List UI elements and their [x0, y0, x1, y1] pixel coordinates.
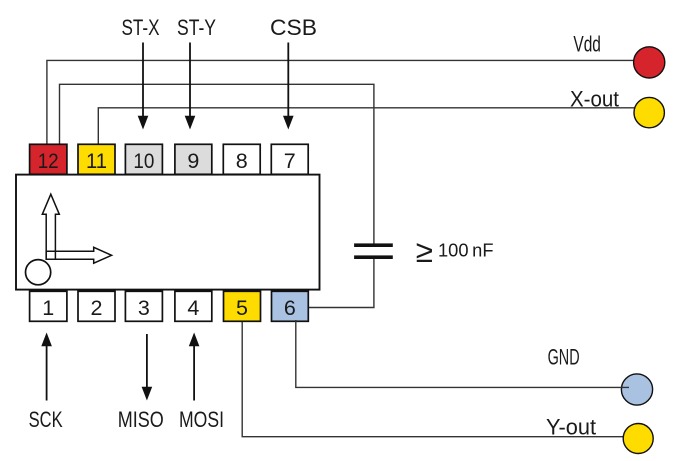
pin 9	[175, 144, 212, 174]
svg-text:MISO: MISO	[118, 407, 164, 432]
svg-text:4: 4	[187, 296, 199, 320]
wire pin11 to X-out terminal	[98, 108, 634, 146]
svg-text:1: 1	[42, 296, 54, 320]
pin 1	[30, 291, 67, 321]
wire pin12 to Vdd terminal	[47, 60, 634, 146]
wire pin12 to capacitor top	[60, 84, 374, 243]
svg-text:3: 3	[138, 296, 150, 320]
wire pin6 to GND terminal	[296, 320, 629, 387]
svg-text:MOSI: MOSI	[179, 407, 224, 432]
X-out terminal (yellow)	[634, 97, 664, 127]
GND terminal (blue)	[621, 374, 652, 405]
svg-text:8: 8	[236, 149, 248, 173]
svg-text:SCK: SCK	[29, 407, 63, 432]
ST-Y arrow into pin 9	[185, 43, 196, 130]
svg-text:12: 12	[38, 149, 59, 173]
svg-text:2: 2	[91, 296, 103, 320]
capacitor C1 value label: >= 100 nF	[416, 233, 494, 269]
svg-text:ST-Y: ST-Y	[177, 15, 216, 40]
pin 5	[224, 291, 261, 321]
svg-text:7: 7	[284, 149, 296, 173]
CSB arrow into pin 7	[283, 43, 294, 130]
svg-text:CSB: CSB	[270, 15, 317, 40]
capacitor C1 plates	[354, 243, 393, 259]
pin-1 indicator dot	[25, 260, 50, 285]
svg-text:11: 11	[86, 149, 107, 173]
pin 4	[175, 291, 212, 321]
pin 12	[30, 144, 67, 174]
pin 7	[271, 144, 308, 174]
wire capacitor bottom to pin6	[308, 259, 374, 308]
Y-out terminal (yellow)	[623, 424, 653, 454]
SCK arrow into pin 1	[41, 333, 52, 401]
svg-text:10: 10	[133, 149, 154, 173]
pin 11	[78, 144, 115, 174]
svg-text:GND: GND	[548, 344, 580, 369]
svg-text:≥: ≥	[416, 233, 433, 269]
svg-text:Vdd: Vdd	[573, 32, 601, 57]
MISO arrow out of pin 3	[142, 334, 153, 401]
Vdd terminal (red)	[634, 47, 665, 78]
pin 8	[223, 144, 260, 174]
svg-text:X-out: X-out	[570, 86, 619, 111]
wire pin5 to Y-out terminal	[242, 320, 623, 437]
svg-text:5: 5	[236, 296, 248, 320]
pin 6	[272, 291, 309, 321]
svg-text:100 nF: 100 nF	[438, 240, 494, 261]
pin 2	[78, 291, 115, 321]
MOSI arrow into pin 4	[189, 333, 200, 401]
svg-text:9: 9	[187, 149, 199, 173]
IC body U1	[16, 175, 320, 290]
ST-X arrow into pin 10	[138, 43, 149, 130]
svg-text:6: 6	[284, 296, 296, 320]
svg-text:ST-X: ST-X	[122, 15, 160, 40]
pin 3	[125, 291, 162, 321]
svg-text:Y-out: Y-out	[546, 415, 596, 440]
axes arrows (X/Y orientation)	[42, 194, 111, 263]
pin 10	[125, 144, 162, 174]
